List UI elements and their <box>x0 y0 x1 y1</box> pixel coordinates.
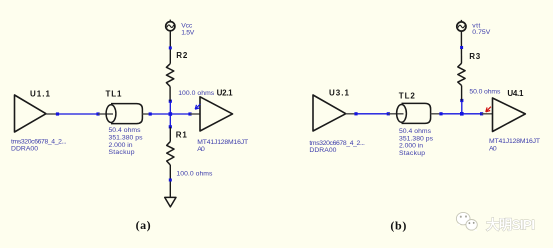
svg-text:100.0 ohms: 100.0 ohms <box>176 170 213 177</box>
svg-text:1.5V: 1.5V <box>181 29 194 36</box>
svg-text:0.75V: 0.75V <box>472 29 490 36</box>
value 100.0 ohms (R2) <box>178 90 215 97</box>
node dot left of net b <box>354 112 357 115</box>
caption (a) <box>136 218 151 232</box>
svg-text:Stackup: Stackup <box>399 150 425 157</box>
svg-text:R1: R1 <box>176 130 188 139</box>
svg-text:A0: A0 <box>489 145 497 152</box>
receiver U4.1 <box>493 98 526 132</box>
node dot left of net a <box>56 112 59 115</box>
value tms320c6678_4_2... DDRA00 (U3.1) <box>309 140 365 154</box>
label R2 <box>176 51 188 60</box>
wire net TL2 to U4.1 <box>441 113 482 115</box>
transmission line TL1 <box>106 104 142 124</box>
node dot between Vcc and R2 <box>169 46 172 49</box>
label R3 <box>469 52 481 61</box>
node dot between R1 and ground <box>169 179 172 182</box>
svg-text:Stackup: Stackup <box>109 149 135 156</box>
driver U3.1 <box>313 95 346 131</box>
svg-text:U4.1: U4.1 <box>507 89 524 98</box>
svg-text:U2.1: U2.1 <box>217 89 234 98</box>
driver U1.1 <box>15 95 47 132</box>
wire lead into U2.1 <box>190 113 200 115</box>
label TL2 <box>399 91 416 100</box>
probe arrow at U4.1 input (red) <box>486 107 491 112</box>
svg-text:100.0 ohms: 100.0 ohms <box>178 90 215 97</box>
watermark wechat logo bubbles <box>456 212 477 231</box>
wire U3.1 output lead <box>346 113 356 115</box>
wire R3 to tap <box>461 86 463 101</box>
label Vcc 1.5V <box>181 23 194 37</box>
node dot above R3 tap <box>460 99 463 102</box>
node dot at TL2 right <box>439 112 442 115</box>
svg-text:A0: A0 <box>197 146 205 153</box>
value 50.0 ohms (R3) <box>469 89 501 96</box>
wire R2 to junction <box>169 87 171 102</box>
wire lead out of TL2 <box>431 113 441 115</box>
wire vertical net at R3 tap <box>461 101 463 114</box>
svg-text:DDRA00: DDRA00 <box>309 147 336 154</box>
label U1.1 <box>30 90 51 99</box>
receiver U2.1 <box>200 97 233 131</box>
value 50.4 ohms 351.380 ps 2.000 in Stackup (TL1) <box>109 127 144 156</box>
resistor R3 <box>458 63 465 85</box>
wire vertical net at junction <box>169 101 171 127</box>
wire U1.1 output lead <box>46 113 58 115</box>
wire net U3.1 to TL2 <box>356 113 388 115</box>
wire R1 to ground <box>169 165 171 197</box>
wire net U1.1 to TL1 <box>58 113 99 115</box>
svg-text:MT41J128M16JT: MT41J128M16JT <box>197 139 248 146</box>
svg-text:TL1: TL1 <box>106 90 123 99</box>
wire lead into TL1 <box>98 113 113 115</box>
value 50.4 ohms 351.380 ps 2.000 in Stackup (TL2) <box>399 128 434 157</box>
probe arrow at U2.1 input (blue) <box>195 104 200 109</box>
svg-text:(a): (a) <box>136 218 151 232</box>
label vtt 0.75V <box>472 22 490 36</box>
node dot between vtt and R3 <box>460 46 463 49</box>
svg-text:TL2: TL2 <box>399 91 416 100</box>
svg-text:50.0 ohms: 50.0 ohms <box>469 89 501 96</box>
caption (b) <box>390 219 406 233</box>
value tms320c6678_4_2... DDRA00 (U1.1) <box>11 139 67 153</box>
label TL1 <box>106 90 123 99</box>
svg-text:DDRA00: DDRA00 <box>11 146 38 153</box>
svg-text:大明SIPI: 大明SIPI <box>486 217 535 233</box>
node dot below junction <box>169 125 172 128</box>
node dot at TL1 left <box>96 112 99 115</box>
wire lead out of TL1 <box>142 113 150 115</box>
svg-text:351.380 ps: 351.380 ps <box>109 135 144 142</box>
label U4.1 <box>507 89 524 98</box>
label U2.1 <box>217 89 234 98</box>
svg-text:R2: R2 <box>176 51 188 60</box>
wire junction to R1 <box>169 127 171 142</box>
watermark text 大明SIPI <box>486 217 535 233</box>
svg-text:351.380 ps: 351.380 ps <box>399 135 434 142</box>
resistor R1 <box>167 142 174 166</box>
svg-text:U3.1: U3.1 <box>329 88 350 97</box>
svg-text:2.000 in: 2.000 in <box>109 142 133 149</box>
svg-text:50.4 ohms: 50.4 ohms <box>399 128 432 135</box>
value MT41J128M16JT A0 (U4.1) <box>489 138 540 152</box>
junction node at R3 tap <box>460 112 464 116</box>
svg-text:50.4 ohms: 50.4 ohms <box>109 127 142 134</box>
svg-text:2.000 in: 2.000 in <box>399 143 423 150</box>
wire lead into TL2 <box>388 113 403 115</box>
node dot at U4.1 input <box>480 112 483 115</box>
voltage source vtt <box>457 20 466 31</box>
wire Vcc to R2 <box>169 31 171 64</box>
ground <box>165 197 176 207</box>
voltage source Vcc <box>166 20 175 31</box>
value 100.0 ohms (R1) <box>176 170 213 177</box>
wire net TL1 to U2.1 <box>150 113 190 115</box>
wire vtt to R3 <box>460 31 462 63</box>
node dot at TL1 right <box>149 112 152 115</box>
svg-text:U1.1: U1.1 <box>30 90 51 99</box>
svg-text:R3: R3 <box>469 52 481 61</box>
node dot at TL2 left <box>387 112 390 115</box>
wire lead into U4.1 <box>482 113 493 115</box>
label R1 <box>176 130 188 139</box>
transmission line TL2 <box>397 103 431 123</box>
node dot at U2.1 input <box>188 112 191 115</box>
junction node at R1/R2 tap <box>169 112 173 116</box>
node dot above junction <box>169 100 172 103</box>
svg-text:(b): (b) <box>390 219 406 233</box>
label U3.1 <box>329 88 350 97</box>
svg-text:MT41J128M16JT: MT41J128M16JT <box>489 138 540 145</box>
resistor R2 <box>166 64 173 87</box>
value MT41J128M16JT A0 (U2.1) <box>197 139 248 153</box>
